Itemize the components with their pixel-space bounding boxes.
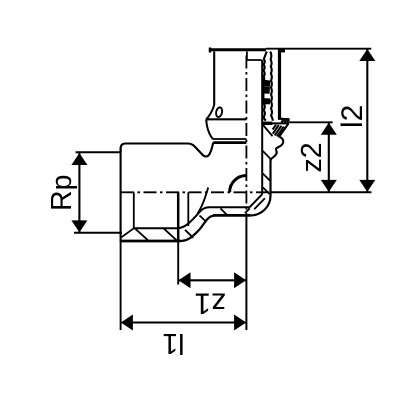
Rp dimension line	[78, 153, 80, 232]
press socket right wall thick	[278, 50, 281, 119]
bell outer left curve	[206, 119, 213, 139]
thread start vertical x=133.8	[133, 192, 135, 228]
thread end vertical thick x=178	[177, 192, 180, 241]
z1 arrow right	[234, 272, 246, 288]
press socket left wall	[213, 52, 215, 106]
body bottom thick line (socket outer wall)	[120, 240, 181, 243]
Rp top extension line	[76, 151, 121, 153]
corner hatch stroke 1	[254, 198, 265, 209]
plateau hatch stroke	[221, 209, 228, 216]
inner bore thread line	[134, 227, 177, 229]
vertical bore line right side	[261, 60, 263, 194]
bell top lip line	[206, 118, 246, 120]
thread runout vertical thin x=188	[187, 192, 189, 226]
vertical wall hatch strokes	[263, 151, 270, 158]
horizontal centerline dash-dot	[121, 191, 270, 193]
l1 dimension line	[121, 321, 246, 323]
Rp bottom extension line	[74, 232, 122, 234]
Rp arrow up	[71, 153, 87, 165]
arrowheads	[71, 49, 375, 331]
cone hatch stroke 1	[185, 230, 193, 238]
svg-text:Rp: Rp	[46, 175, 78, 211]
elbow tube outer bottom plateau (thick)	[213, 214, 251, 217]
corner hatch stroke 3	[263, 188, 270, 195]
shoulder line across	[262, 122, 289, 124]
wm hatch block	[281, 119, 289, 123]
body left edge	[120, 149, 122, 242]
outer S-curve cone to elbow tube	[181, 216, 216, 242]
body outline left socket (exterior, top half)	[121, 143, 214, 157]
wedge hatch strokes	[273, 125, 286, 137]
thread hatch stroke 1	[134, 228, 149, 241]
svg-text:l2: l2	[336, 105, 369, 128]
z2 arrow down	[321, 180, 337, 192]
Rp arrow down	[71, 220, 87, 232]
z1 extension (thread end)	[177, 241, 179, 285]
svg-text:z2: z2	[296, 142, 328, 172]
neck cone edge from valley down	[198, 188, 209, 214]
svg-text:l1: l1	[162, 327, 184, 359]
cone hatch stroke 2	[200, 216, 207, 223]
centerline solid extension bottom	[245, 215, 247, 330]
cap right stub	[281, 50, 285, 53]
seal band blob 1	[263, 80, 270, 86]
outer corner arc bottom-right	[251, 158, 271, 215]
z1 dimension line	[179, 279, 246, 281]
cap left end tick	[209, 48, 212, 53]
vertical centerline dash-dot	[245, 56, 247, 216]
corner hatch stroke 2	[245, 208, 250, 213]
inner S-curve bore cone	[177, 207, 210, 228]
z1 arrow left	[179, 272, 191, 288]
wavy seal band left edge	[263, 52, 266, 121]
wavy seal band right edge	[270, 52, 273, 121]
shoulder line at press stop (thick inner part)	[262, 122, 272, 125]
l2 top extension line	[291, 48, 371, 50]
throat arc (inner corner) thick	[230, 176, 247, 193]
l1 arrow right	[234, 315, 246, 331]
bell bottom thick line	[213, 141, 246, 144]
bore plateau	[210, 206, 250, 208]
bead profile right side	[271, 136, 284, 161]
stop cone diagonal	[262, 124, 272, 136]
l2 dimension line	[366, 49, 368, 192]
thread hatch stroke 2	[163, 228, 177, 241]
l1 extension (left face)	[120, 241, 122, 330]
bore chamfer at socket mouth	[121, 228, 134, 237]
seal band blob 3	[263, 99, 269, 104]
hatched wedge outline	[278, 124, 288, 136]
ellipse detail on bell	[215, 107, 223, 118]
inner face line under cap	[247, 52, 262, 61]
l1 arrow left	[121, 315, 133, 331]
right wall foot	[278, 118, 283, 120]
bell flare upper curve	[206, 105, 214, 119]
z2 extension line	[289, 121, 333, 123]
top cap thin continuation	[266, 48, 291, 50]
bore corner chamfer into vertical pipe	[249, 194, 262, 207]
seal band blob 2	[263, 88, 270, 93]
top cap thick line	[210, 48, 266, 51]
centerline solid extension right	[270, 191, 371, 193]
l2 arrow down	[359, 180, 375, 192]
z2 arrow up	[321, 123, 337, 135]
bell bottom thin line	[213, 138, 247, 140]
z2 dimension line	[328, 123, 330, 192]
svg-text:z1: z1	[194, 287, 226, 320]
l2 arrow up	[359, 49, 375, 61]
